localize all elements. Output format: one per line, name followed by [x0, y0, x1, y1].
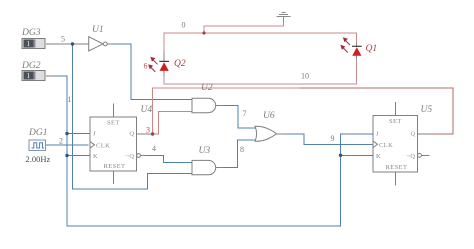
- JK flip-flop U2: [90, 104, 137, 185]
- wire net5 DG3 to U1 input: [47, 43, 89, 45]
- AND gate U4: [192, 98, 216, 112]
- AND gate U3: [192, 160, 216, 174]
- svg-text:2: 2: [59, 137, 63, 146]
- svg-text:CLK: CLK: [379, 142, 393, 149]
- svg-text:CLK: CLK: [96, 143, 110, 150]
- svg-text:J: J: [376, 131, 379, 138]
- svg-text:4: 4: [152, 144, 156, 153]
- wire net5 branch down from junction (DG3 vertical) to U3 lower input: [73, 44, 193, 189]
- JK flip-flop U5: [373, 102, 430, 186]
- svg-text:5: 5: [61, 35, 65, 44]
- wire net3 U2 Q up to feedback line: [153, 88, 300, 134]
- node junction net1 at U2 J row: [65, 132, 68, 135]
- svg-text:RESET: RESET: [104, 163, 126, 170]
- svg-text:U3: U3: [199, 146, 211, 156]
- wire net1 DG2 to bottom rail and U5 J: [47, 75, 53, 77]
- svg-text:Q2: Q2: [174, 59, 186, 69]
- svg-text:0: 0: [182, 21, 186, 30]
- wire net3 U2 Q stub: [137, 133, 153, 135]
- svg-text:SET: SET: [107, 120, 120, 127]
- svg-text:1: 1: [27, 40, 31, 48]
- svg-text:7: 7: [243, 109, 247, 118]
- node junction net3 at U2 Q: [151, 132, 154, 135]
- node junction net1 at U5 K row: [339, 154, 342, 157]
- U2 ~Q bubble: [137, 154, 141, 158]
- LED Q1: [340, 37, 361, 56]
- svg-text:Q: Q: [411, 131, 416, 138]
- svg-text:1: 1: [68, 95, 72, 104]
- svg-text:8: 8: [240, 145, 244, 154]
- wire net8 U3 output to U6 lower input: [216, 167, 224, 169]
- svg-text:J: J: [93, 130, 96, 137]
- wire net9 U6 output to U5 CLK: [277, 133, 286, 135]
- wire net1 branch to U2 J: [67, 133, 90, 135]
- digital constant DG3: [22, 39, 45, 49]
- svg-text:3: 3: [146, 126, 150, 135]
- svg-text:~Q: ~Q: [126, 153, 135, 160]
- wire net1 branch to U5 K: [341, 154, 374, 156]
- svg-text:U5: U5: [421, 105, 433, 115]
- svg-text:SET: SET: [389, 118, 402, 125]
- wire net1 branch to U2 K: [67, 155, 90, 157]
- svg-text:Q1: Q1: [366, 44, 378, 54]
- wire net10 Q2 anode to Q1 anode: [163, 71, 165, 76]
- wire net4 U2 ~Q to U3 upper input: [141, 155, 148, 157]
- svg-text:~Q: ~Q: [407, 153, 416, 160]
- LED Q2: [148, 57, 169, 72]
- wire net2 DG1 clock to U2 CLK: [46, 144, 89, 146]
- inverter U1: [89, 37, 108, 51]
- svg-text:9: 9: [331, 134, 335, 143]
- svg-text:DG2: DG2: [21, 61, 41, 71]
- wire net3 U2 Q to U4 lower input: [153, 112, 192, 135]
- svg-text:K: K: [93, 153, 98, 160]
- ground symbol: [276, 13, 290, 22]
- wire net7 U4 output to U6 upper input: [216, 105, 224, 107]
- U5 ~Q bubble and stub: [418, 153, 422, 157]
- svg-text:10: 10: [301, 72, 309, 81]
- svg-text:1: 1: [27, 72, 31, 80]
- svg-text:6: 6: [144, 62, 148, 71]
- svg-text:U4: U4: [141, 105, 153, 115]
- wire net3 U5 Q stub: [418, 133, 431, 135]
- digital constant DG2: [22, 71, 45, 81]
- svg-text:Q: Q: [130, 130, 135, 137]
- clock source DG1: [29, 140, 46, 151]
- node junction net1 at U2 K row: [65, 154, 68, 157]
- svg-text:2.00Hz: 2.00Hz: [26, 154, 51, 164]
- node junction on net5 at DG3 wire: [71, 42, 74, 45]
- svg-text:K: K: [376, 153, 381, 160]
- svg-text:RESET: RESET: [386, 164, 408, 171]
- node junction net0: [202, 31, 205, 34]
- svg-text:U1: U1: [92, 25, 104, 35]
- wire U1 output to U4 upper input: [107, 43, 113, 45]
- svg-text:U2: U2: [201, 83, 213, 93]
- wire net0 ground branch: [204, 22, 284, 34]
- svg-text:DG3: DG3: [21, 28, 41, 38]
- svg-text:U6: U6: [263, 111, 275, 121]
- svg-text:DG1: DG1: [28, 128, 47, 138]
- wire net0 Q2 cathode to ground and Q1 cathode: [164, 33, 357, 52]
- OR gate U6: [255, 126, 277, 141]
